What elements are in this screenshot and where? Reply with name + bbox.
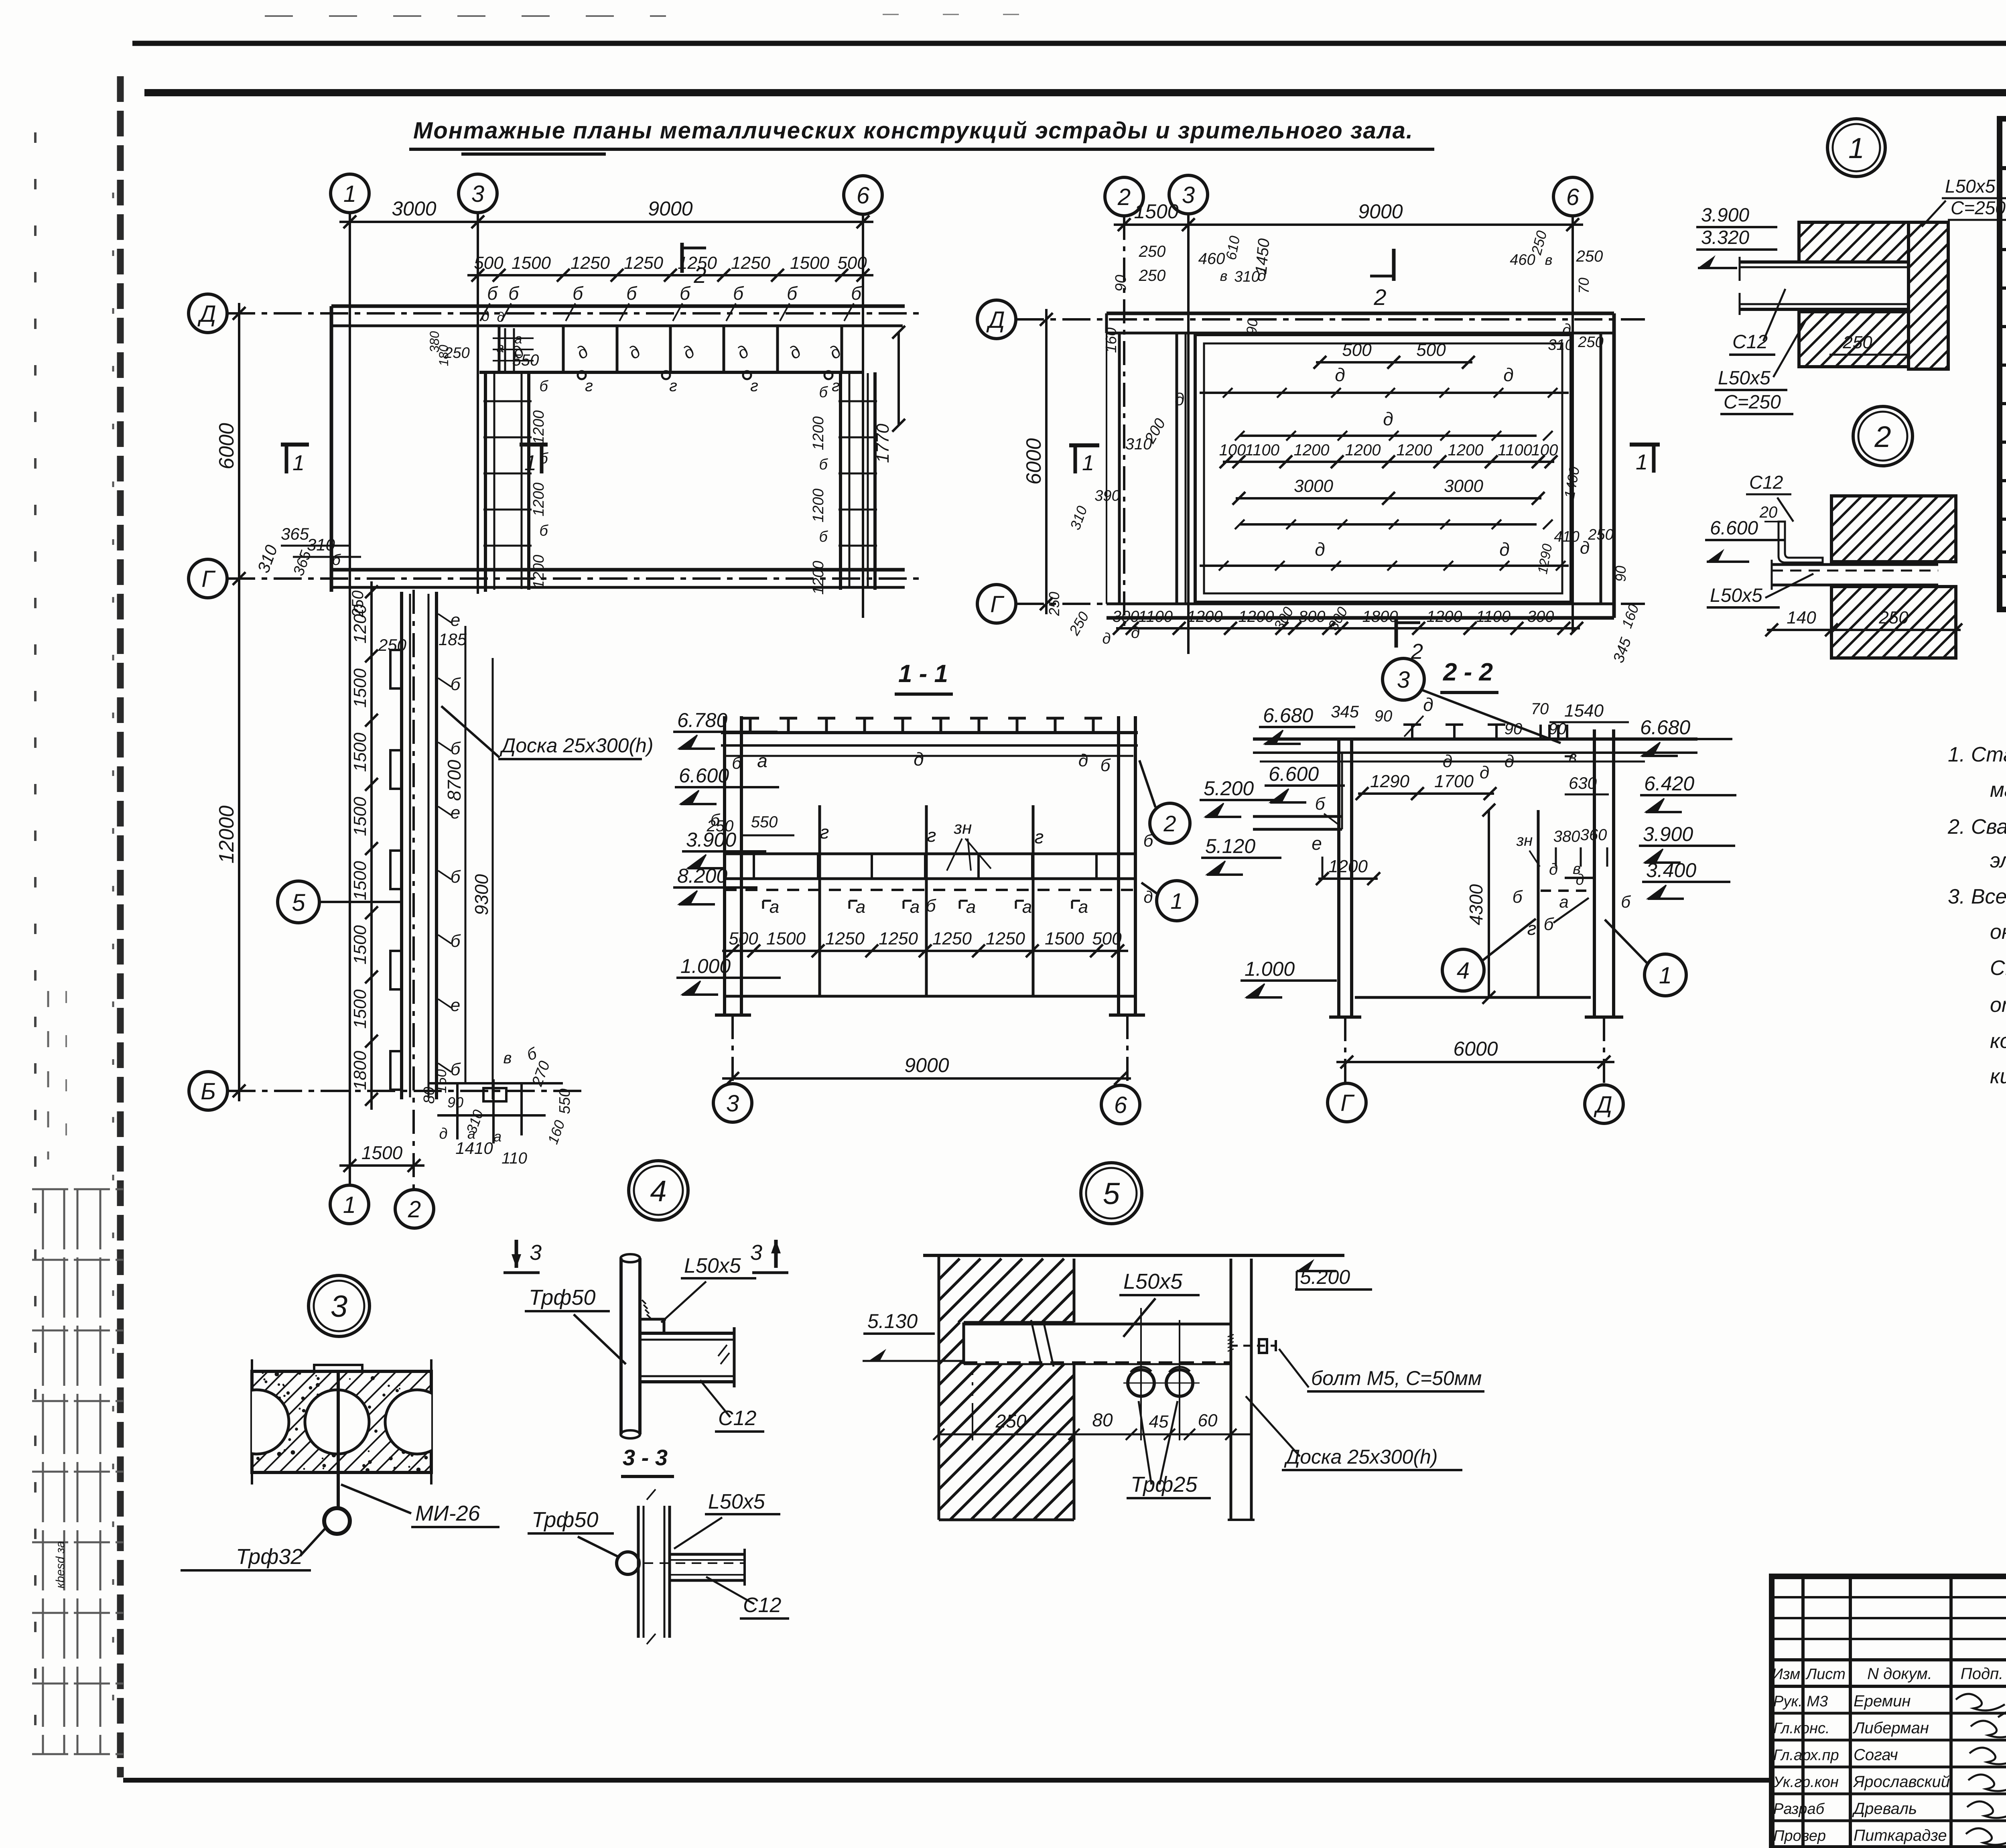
svg-text:250: 250 <box>1066 609 1092 638</box>
detail 5 ceiling line <box>923 1254 1344 1257</box>
svg-text:1400: 1400 <box>1561 465 1583 500</box>
svg-text:Трф50: Трф50 <box>529 1285 595 1310</box>
svg-text:1.000: 1.000 <box>1245 958 1295 980</box>
svg-text:д: д <box>786 341 805 363</box>
svg-text:250: 250 <box>1139 267 1166 284</box>
section 1-1 roof beam <box>721 731 1138 734</box>
svg-text:6.680: 6.680 <box>1640 716 1690 739</box>
svg-text:380: 380 <box>1553 828 1580 845</box>
svg-text:а: а <box>467 1125 475 1142</box>
svg-text:1250: 1250 <box>986 929 1025 948</box>
svg-text:а: а <box>1022 897 1032 917</box>
plan2 outer walls <box>1107 312 1614 315</box>
section 1-1 posts g <box>818 805 821 996</box>
detail 3 slab speckles <box>256 1372 428 1472</box>
plan1 axis bubble G <box>189 559 227 598</box>
svg-text:1100: 1100 <box>1245 441 1279 459</box>
svg-text:1500: 1500 <box>350 668 370 708</box>
svg-text:1700: 1700 <box>1434 772 1474 791</box>
svg-text:б: б <box>451 739 461 758</box>
svg-text:250: 250 <box>1878 608 1909 628</box>
svg-text:в: в <box>1545 252 1553 268</box>
section 1-1 bottom chord line <box>725 995 1135 998</box>
plan2 interior bottom run <box>1200 565 1569 567</box>
svg-text:90: 90 <box>447 1094 463 1111</box>
svg-text:Лист: Лист <box>1805 1666 1846 1683</box>
svg-text:б: б <box>573 283 584 304</box>
svg-text:2 - 2: 2 - 2 <box>1443 658 1493 686</box>
svg-text:180: 180 <box>437 345 451 366</box>
svg-text:6: 6 <box>857 183 870 209</box>
svg-text:1: 1 <box>343 1192 356 1218</box>
svg-text:е: е <box>451 995 460 1015</box>
svg-text:б: б <box>680 283 691 304</box>
svg-text:д: д <box>1576 871 1584 888</box>
svg-text:1500: 1500 <box>790 253 829 273</box>
svg-text:б: б <box>733 283 744 304</box>
svg-text:а: а <box>493 1128 501 1145</box>
svg-text:1500: 1500 <box>350 797 370 836</box>
svg-text:д: д <box>1315 539 1325 560</box>
detail 3 anchor rod <box>337 1371 340 1509</box>
svg-text:д: д <box>439 1125 447 1142</box>
svg-text:1250: 1250 <box>624 253 663 273</box>
svg-text:в: в <box>1220 268 1228 284</box>
svg-text:L50х5: L50х5 <box>1710 585 1762 606</box>
detail 3 label Tr32 <box>300 1528 326 1556</box>
svg-text:250: 250 <box>1578 334 1603 351</box>
detail 2 callout circle <box>1853 406 1913 466</box>
svg-text:310: 310 <box>1067 504 1090 532</box>
svg-text:90: 90 <box>1375 707 1393 725</box>
section 2-2 dims 1290 1700 <box>1358 792 1494 795</box>
plan1 axis bubble 3 <box>459 174 497 213</box>
svg-text:1: 1 <box>1636 450 1648 474</box>
title block outer <box>1772 1576 2006 1848</box>
svg-text:1200: 1200 <box>1397 441 1432 459</box>
svg-text:МИ-26: МИ-26 <box>415 1501 481 1525</box>
section 2-2 right column <box>1593 729 1596 1017</box>
svg-text:80: 80 <box>1092 1409 1113 1430</box>
svg-text:Доска 25х300(h): Доска 25х300(h) <box>499 734 653 757</box>
svg-text:8.200: 8.200 <box>677 865 727 887</box>
svg-text:1770: 1770 <box>873 424 893 463</box>
svg-text:1: 1 <box>1170 888 1183 914</box>
plan2 top dimension 1500/9000 <box>1114 223 1583 226</box>
plan2 vertical dim 6000 <box>1045 309 1048 614</box>
svg-text:Гл.арх.пр: Гл.арх.пр <box>1773 1747 1839 1764</box>
svg-text:е: е <box>451 803 460 822</box>
svg-text:250: 250 <box>1842 333 1872 352</box>
svg-text:Согач: Согач <box>1854 1746 1898 1764</box>
svg-text:а: а <box>966 897 976 917</box>
svg-text:250: 250 <box>995 1411 1027 1432</box>
svg-text:250: 250 <box>378 636 407 654</box>
svg-text:1500: 1500 <box>350 925 370 965</box>
detail 4-3 beam plan <box>670 1553 745 1556</box>
svg-text:1250: 1250 <box>932 929 972 948</box>
svg-text:1250: 1250 <box>879 929 918 948</box>
svg-text:Ук.гр.кон: Ук.гр.кон <box>1773 1774 1839 1791</box>
svg-text:3: 3 <box>750 1241 762 1265</box>
svg-text:д: д <box>679 341 698 363</box>
svg-text:90: 90 <box>1504 720 1523 738</box>
svg-text:2: 2 <box>408 1196 421 1223</box>
plan1 axis line 1 <box>349 213 351 1185</box>
svg-text:20: 20 <box>1759 504 1778 521</box>
detail 3 hollow core slab <box>252 1371 431 1472</box>
svg-text:д: д <box>1503 364 1513 385</box>
svg-text:г: г <box>1035 827 1044 847</box>
plan2 interior pipe run top <box>1200 392 1569 394</box>
svg-text:б: б <box>626 283 638 304</box>
svg-text:д: д <box>1175 390 1184 409</box>
scan artifact textured strip <box>117 76 124 1777</box>
detail 2 channel C12 profile <box>1779 522 1823 563</box>
svg-text:б: б <box>819 456 828 473</box>
svg-text:Д: Д <box>197 301 216 327</box>
svg-text:70: 70 <box>1576 278 1592 294</box>
svg-text:б: б <box>1513 887 1523 907</box>
svg-text:Питкарадзе: Питкарадзе <box>1854 1827 1947 1844</box>
svg-text:1200: 1200 <box>810 561 827 595</box>
svg-text:д: д <box>1383 408 1393 429</box>
section 2-2 roof beam <box>1253 737 1697 741</box>
plan1 corner mini-chain near axis3 <box>504 328 506 372</box>
svg-text:Трф32: Трф32 <box>236 1545 303 1569</box>
detail 5 beam L50x5 <box>964 1323 1230 1326</box>
svg-text:г: г <box>820 822 829 843</box>
section 1-1 dim chain <box>722 950 1128 952</box>
svg-text:электродами типа Э42.: электродами типа Э42. <box>1990 849 2006 872</box>
svg-text:1200: 1200 <box>810 416 827 451</box>
plan1 section mark 1 right <box>520 443 548 447</box>
plan1 axis line B <box>227 1090 586 1092</box>
detail 1 beam C12 <box>1740 260 1909 264</box>
svg-text:ки работ. ”: ки работ. ” <box>1990 1065 2006 1088</box>
svg-text:1200: 1200 <box>1294 441 1330 459</box>
svg-text:250: 250 <box>1588 526 1613 543</box>
svg-text:90: 90 <box>1113 275 1129 292</box>
detail 1 concrete hatch upper <box>1799 222 1909 262</box>
svg-text:1200: 1200 <box>1239 608 1274 625</box>
svg-text:1100: 1100 <box>1476 608 1511 625</box>
svg-text:Изм: Изм <box>1772 1666 1800 1683</box>
svg-text:310: 310 <box>254 542 281 575</box>
svg-text:а: а <box>770 897 779 917</box>
plan1 axis line 2 <box>412 590 415 1190</box>
svg-text:1: 1 <box>1848 132 1864 164</box>
section 2-2 callout circle 4 <box>1442 949 1484 991</box>
plan1 top wall <box>331 305 905 308</box>
callout circle 5 stage <box>278 881 319 923</box>
svg-text:N докум.: N докум. <box>1867 1665 1932 1683</box>
plan1 axis bubble 2 bottom <box>395 1190 434 1228</box>
svg-text:а: а <box>497 340 504 355</box>
svg-text:д: д <box>914 749 924 770</box>
svg-text:1 - 1: 1 - 1 <box>898 660 948 688</box>
svg-text:390: 390 <box>1094 487 1120 504</box>
svg-text:500: 500 <box>1342 340 1372 360</box>
svg-text:550: 550 <box>556 1088 573 1114</box>
svg-text:а: а <box>515 331 522 347</box>
svg-text:6.600: 6.600 <box>1269 763 1319 785</box>
detail 3 label MI-26 <box>341 1484 411 1513</box>
svg-text:5: 5 <box>292 889 305 916</box>
svg-text:1200: 1200 <box>530 410 547 445</box>
svg-text:д: д <box>1335 364 1345 385</box>
axis B corner joint detail <box>428 1082 563 1084</box>
svg-text:г: г <box>927 825 936 846</box>
plan1 roof beam band <box>479 371 862 374</box>
svg-text:L50х5: L50х5 <box>1945 176 1996 197</box>
svg-text:б: б <box>539 378 548 395</box>
svg-text:3000: 3000 <box>1294 476 1333 496</box>
svg-text:2: 2 <box>693 262 706 288</box>
svg-text:500: 500 <box>1416 340 1446 360</box>
svg-text:5: 5 <box>1103 1177 1120 1211</box>
detail 5 board <box>1230 1259 1232 1520</box>
svg-text:100: 100 <box>1219 441 1246 459</box>
svg-text:д: д <box>1443 751 1452 771</box>
svg-text:Разраб: Разраб <box>1773 1801 1825 1818</box>
svg-text:б: б <box>332 552 341 569</box>
svg-text:6000: 6000 <box>1453 1038 1498 1060</box>
svg-text:1. Стальные конструкции п: 1. Стальные конструкции приняты из стали <box>1948 743 2006 766</box>
svg-text:9000: 9000 <box>1358 200 1403 223</box>
svg-text:б: б <box>451 931 461 951</box>
detail 1 concrete hatch lower <box>1799 312 1909 367</box>
detail 4 callout circle <box>629 1161 688 1220</box>
svg-text:3: 3 <box>1182 182 1195 208</box>
svg-text:С12: С12 <box>1732 331 1768 353</box>
svg-text:б: б <box>1100 755 1111 775</box>
svg-text:5.200: 5.200 <box>1204 777 1254 800</box>
svg-text:L50х5: L50х5 <box>1123 1269 1183 1294</box>
svg-text:болт М5, С=50мм: болт М5, С=50мм <box>1311 1367 1482 1389</box>
svg-text:3.900: 3.900 <box>1643 823 1693 845</box>
svg-text:90: 90 <box>1243 318 1261 335</box>
stage strip vertical dims 8700 9300 <box>465 626 467 1083</box>
detail 5 callout circle <box>1081 1163 1142 1224</box>
plan1 left wall axis1 <box>330 306 333 592</box>
scan artifact strip far left <box>34 132 37 1757</box>
svg-text:160: 160 <box>544 1118 568 1146</box>
plan1 axis line 3 <box>477 213 479 594</box>
section 1-1 axis bubble 6 <box>1101 1085 1140 1124</box>
svg-text:140: 140 <box>1787 608 1816 628</box>
svg-text:д: д <box>1562 321 1571 339</box>
section 1-1 left column <box>723 716 726 1015</box>
svg-text:а: а <box>856 897 865 917</box>
svg-text:1500: 1500 <box>512 253 551 273</box>
plan2 axis bubble 6 <box>1553 177 1592 216</box>
plan2 section mark 2 bottom <box>1395 618 1398 648</box>
svg-text:г: г <box>669 377 677 395</box>
plan1 axis line D <box>227 312 919 315</box>
section 2-2 dim 6000 <box>1336 1061 1614 1063</box>
detail 5 wall outline <box>938 1255 940 1520</box>
svg-text:3.400: 3.400 <box>1646 859 1696 881</box>
svg-text:СНиП II-28-73 „ Защита стр: СНиП II-28-73 „ Защита строительных конс… <box>1990 956 2006 980</box>
svg-text:1100: 1100 <box>1138 608 1173 625</box>
svg-text:500: 500 <box>1092 929 1122 948</box>
svg-text:б: б <box>451 674 461 694</box>
svg-text:45: 45 <box>1149 1412 1169 1432</box>
svg-text:3: 3 <box>331 1290 347 1324</box>
svg-text:2: 2 <box>1373 284 1386 310</box>
sheet outer top border <box>132 41 2006 46</box>
svg-text:110: 110 <box>501 1149 527 1167</box>
sheet inner top border <box>144 89 2006 96</box>
detail 2 concrete lower <box>1831 587 1956 658</box>
svg-text:1: 1 <box>1659 963 1672 989</box>
svg-text:1250: 1250 <box>731 253 770 273</box>
plan2 axis bubble G <box>977 585 1016 623</box>
sheet bottom border <box>123 1778 1772 1783</box>
svg-text:д: д <box>733 341 753 363</box>
svg-text:6000: 6000 <box>215 423 238 469</box>
svg-text:1: 1 <box>524 451 536 475</box>
section 1-1 middle floor band <box>725 853 1135 855</box>
svg-text:Д: Д <box>1594 1092 1612 1118</box>
svg-text:С12: С12 <box>1749 472 1783 493</box>
elements table outer border <box>2000 119 2006 609</box>
svg-text:5.120: 5.120 <box>1205 835 1255 857</box>
svg-text:1250: 1250 <box>825 929 865 948</box>
svg-text:345: 345 <box>1331 702 1359 721</box>
svg-text:д: д <box>1504 751 1514 771</box>
dimension 1500 axis1-axis2 <box>339 1164 424 1167</box>
svg-text:б: б <box>1315 794 1326 814</box>
svg-text:250: 250 <box>1046 592 1062 616</box>
svg-text:зн: зн <box>1516 832 1533 849</box>
detail 1 callout circle <box>1827 119 1885 177</box>
svg-text:б: б <box>710 810 720 829</box>
plan2 interior dims 500 500 <box>1316 361 1472 364</box>
svg-text:250: 250 <box>1139 243 1166 260</box>
plan2 bottom dimension chain <box>1116 627 1580 630</box>
svg-text:6.780: 6.780 <box>677 709 727 731</box>
svg-text:д: д <box>1423 694 1433 715</box>
svg-text:б: б <box>851 283 862 304</box>
svg-text:70: 70 <box>1531 700 1549 718</box>
svg-text:б: б <box>732 753 742 772</box>
detail 5 bolt <box>1230 1345 1276 1347</box>
svg-text:Провер: Провер <box>1773 1828 1826 1844</box>
svg-text:1200: 1200 <box>530 483 547 517</box>
svg-text:кbesd за: кbesd за <box>54 1541 67 1588</box>
svg-text:460: 460 <box>1510 252 1535 268</box>
svg-text:Б: Б <box>201 1078 216 1105</box>
svg-text:б: б <box>1621 892 1631 911</box>
detail 1 concrete hatch right wall <box>1909 222 1948 369</box>
plan1 section mark 1 left <box>281 443 309 447</box>
svg-text:5.130: 5.130 <box>867 1310 918 1332</box>
svg-text:500: 500 <box>729 929 758 948</box>
svg-text:L50х5: L50х5 <box>1718 368 1770 389</box>
svg-text:160: 160 <box>1103 327 1120 353</box>
section 2-2 callout circle 1 <box>1645 954 1686 996</box>
plan1 axis bubble D <box>189 294 227 333</box>
detail 3 callout circle <box>309 1275 370 1336</box>
plan1 g-pipe circles under beams <box>578 371 586 379</box>
plan1 axis bubble 1 <box>331 174 369 213</box>
svg-text:д: д <box>1480 763 1489 782</box>
detail 2 concrete upper <box>1831 496 1956 562</box>
detail 5 wall hatch <box>939 1259 960 1279</box>
plan1 axis line 6 <box>862 214 864 618</box>
title block header row <box>1772 1658 2006 1661</box>
section 2-2 left column <box>1337 739 1340 1017</box>
svg-text:3: 3 <box>726 1091 739 1117</box>
svg-text:е: е <box>451 610 460 630</box>
svg-text:Трф50: Трф50 <box>532 1508 598 1532</box>
title block signatures <box>1956 1694 2006 1845</box>
detail 4-3 pipe circle <box>617 1552 639 1574</box>
section 1-1 roof stubs <box>749 718 752 733</box>
svg-text:1250: 1250 <box>571 253 610 273</box>
svg-text:630: 630 <box>1569 774 1597 792</box>
section 2-2 callout circle 3 <box>1383 658 1424 700</box>
svg-text:г: г <box>750 377 758 395</box>
stage strip dimension chain <box>370 581 373 1110</box>
svg-text:1500: 1500 <box>1134 200 1178 223</box>
svg-text:3000: 3000 <box>392 197 436 220</box>
svg-text:Подп.: Подп. <box>1961 1665 2003 1683</box>
svg-text:2: 2 <box>1874 420 1891 453</box>
svg-text:500: 500 <box>837 253 867 273</box>
title block left grid columns <box>1801 1576 1805 1848</box>
svg-text:L50х5: L50х5 <box>684 1254 741 1277</box>
svg-text:1: 1 <box>292 451 305 475</box>
svg-text:б: б <box>1544 914 1555 934</box>
svg-text:зн: зн <box>954 818 972 838</box>
svg-text:300: 300 <box>1113 608 1139 625</box>
svg-text:С12: С12 <box>743 1594 781 1617</box>
svg-text:1200: 1200 <box>1187 608 1223 625</box>
svg-text:250: 250 <box>349 591 367 618</box>
svg-text:1290: 1290 <box>1535 542 1555 575</box>
plan2 section mark 2 top <box>1392 249 1396 281</box>
svg-text:г: г <box>832 377 840 395</box>
stage strip walls <box>400 592 403 1099</box>
svg-text:3 - 3: 3 - 3 <box>623 1445 668 1470</box>
svg-text:Гл.конс.: Гл.конс. <box>1773 1720 1830 1737</box>
svg-text:3: 3 <box>1397 667 1410 693</box>
svg-text:Древаль: Древаль <box>1852 1800 1917 1818</box>
svg-text:310: 310 <box>1548 337 1573 353</box>
svg-text:а: а <box>757 750 767 771</box>
svg-text:345: 345 <box>1610 635 1634 665</box>
section 1-1 dim 9000 <box>722 1077 1131 1080</box>
svg-text:90: 90 <box>1612 566 1629 582</box>
plan2 axis lines vertical <box>1123 216 1125 626</box>
svg-text:д: д <box>497 310 505 325</box>
section 2-2 inner post g <box>1537 810 1540 997</box>
svg-text:2: 2 <box>1163 811 1176 836</box>
svg-text:3: 3 <box>530 1241 542 1265</box>
svg-text:б: б <box>539 522 548 539</box>
plan1 top dimension line 3000/9000 <box>339 221 873 223</box>
svg-text:160: 160 <box>433 1069 449 1093</box>
svg-text:3. Все металлические констр: 3. Все металлические конструкции должны … <box>1948 885 2006 908</box>
top edge scan dashes <box>265 15 666 17</box>
svg-text:3.320: 3.320 <box>1701 227 1749 248</box>
section 2-2 axis bubble D <box>1585 1085 1623 1123</box>
svg-text:марки В. Ст. 3 кп2. по Г: марки В. Ст. 3 кп2. по ГОСТ 380-71. <box>1990 778 2006 802</box>
svg-text:100: 100 <box>1531 441 1558 459</box>
